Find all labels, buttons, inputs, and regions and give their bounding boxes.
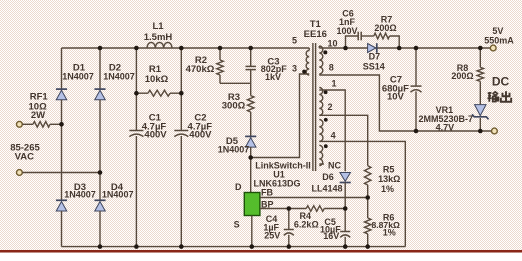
svg-text:4.7V: 4.7V: [436, 122, 455, 132]
svg-text:1N4007: 1N4007: [218, 145, 250, 155]
svg-text:200Ω: 200Ω: [374, 23, 396, 33]
svg-text:2: 2: [327, 102, 332, 112]
svg-text:2W: 2W: [31, 110, 45, 121]
svg-text:NC: NC: [328, 161, 341, 171]
svg-text:SS14: SS14: [363, 61, 385, 71]
svg-text:10V: 10V: [387, 92, 405, 103]
svg-text:VAC: VAC: [15, 151, 34, 162]
svg-text:1: 1: [331, 78, 336, 88]
svg-text:1%: 1%: [381, 184, 394, 194]
svg-text:LL4148: LL4148: [311, 183, 342, 193]
svg-text:100V: 100V: [336, 26, 357, 36]
svg-text:BP: BP: [261, 199, 274, 209]
svg-text:S: S: [234, 220, 240, 230]
svg-text:3: 3: [292, 64, 297, 74]
svg-text:400V: 400V: [189, 129, 212, 140]
svg-text:D6: D6: [322, 172, 334, 182]
svg-text:10kΩ: 10kΩ: [145, 74, 169, 85]
svg-text:1%: 1%: [383, 227, 396, 237]
svg-text:400V: 400V: [144, 129, 167, 140]
svg-text:10: 10: [327, 39, 337, 49]
svg-text:470kΩ: 470kΩ: [186, 64, 215, 75]
svg-text:8: 8: [329, 63, 334, 73]
svg-text:25V: 25V: [264, 230, 280, 240]
svg-text:550mA: 550mA: [484, 35, 514, 45]
svg-text:16V: 16V: [323, 231, 339, 241]
svg-text:EE16: EE16: [304, 29, 327, 40]
svg-text:1.5mH: 1.5mH: [144, 32, 173, 43]
svg-text:4: 4: [331, 131, 336, 141]
svg-text:1N4007: 1N4007: [64, 190, 96, 200]
svg-text:6.2kΩ: 6.2kΩ: [294, 219, 319, 229]
svg-text:1kV: 1kV: [265, 72, 281, 82]
svg-text:300Ω: 300Ω: [222, 100, 246, 111]
svg-text:13kΩ: 13kΩ: [378, 174, 400, 184]
svg-text:R5: R5: [383, 164, 395, 174]
svg-text:D7: D7: [369, 52, 381, 62]
svg-text:200Ω: 200Ω: [451, 71, 473, 81]
svg-text:FB: FB: [261, 188, 273, 198]
svg-text:L1: L1: [152, 21, 164, 32]
svg-text:1N4007: 1N4007: [102, 190, 134, 200]
svg-text:1N4007: 1N4007: [103, 72, 135, 82]
svg-text:D: D: [235, 182, 242, 192]
svg-text:5: 5: [292, 36, 297, 46]
svg-text:1N4007: 1N4007: [62, 72, 94, 82]
svg-text:DC: DC: [492, 75, 510, 89]
